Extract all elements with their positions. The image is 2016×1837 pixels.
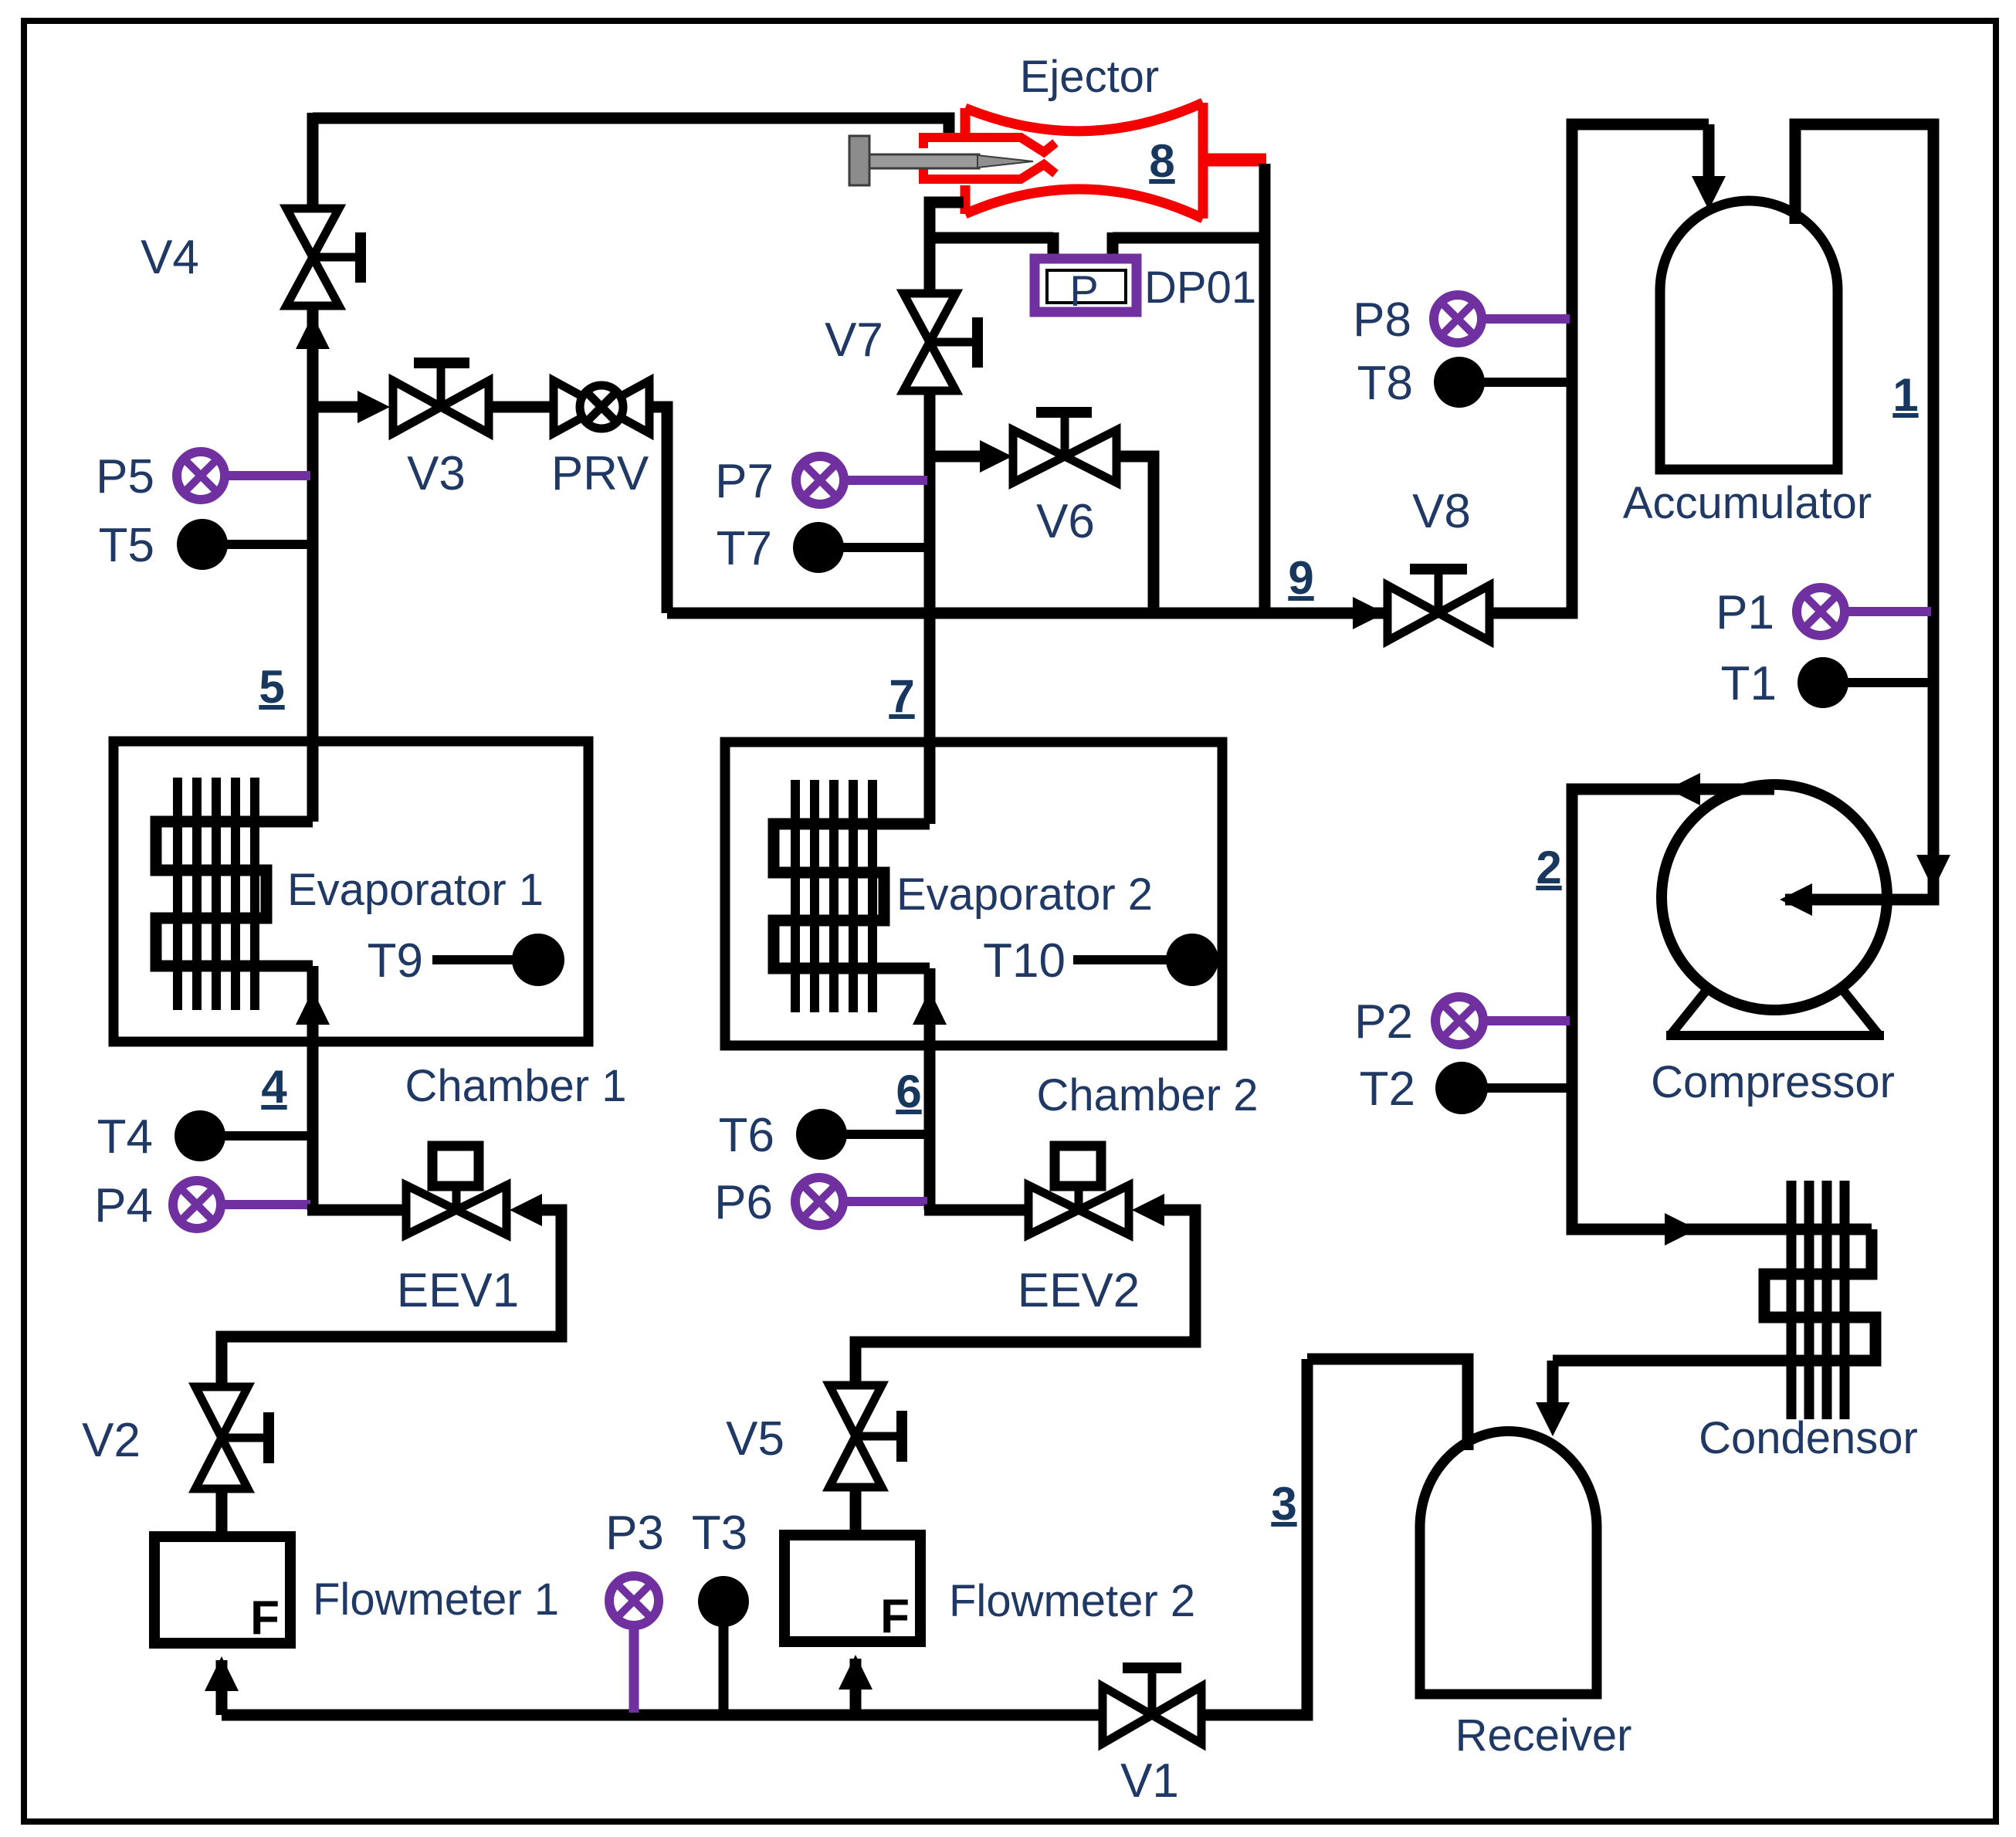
sensor T7: [793, 522, 927, 573]
sensor T1: [1797, 657, 1931, 708]
svg-text:T5: T5: [99, 519, 154, 572]
evaporator 2 coil fins: [795, 780, 872, 1012]
sensor P8: [1434, 295, 1570, 343]
svg-text:T9: T9: [368, 934, 423, 988]
wire: ejector suction duct from V7: [930, 202, 964, 292]
arrow into compressor centre: [1780, 883, 1812, 916]
arrow left on discharge: [1668, 773, 1700, 805]
evaporator 1 serpentine: [156, 822, 313, 966]
svg-text:T6: T6: [719, 1109, 774, 1162]
flowmeter 2 box: [784, 1535, 920, 1642]
svg-text:EEV1: EEV1: [397, 1264, 520, 1317]
ejector outlet stub (red): [1203, 154, 1266, 167]
arrow into V6: [980, 440, 1012, 473]
sensor T3: [698, 1576, 749, 1713]
arrow into condenser: [1665, 1213, 1697, 1246]
wire: DP01 right stub: [1107, 232, 1119, 260]
valve V1: [1103, 1668, 1201, 1744]
wire: line 6 from evaporator 2 down to EEV2 junction: [924, 968, 936, 1210]
svg-text:F: F: [250, 1591, 280, 1645]
svg-text:Ejector: Ejector: [1020, 52, 1160, 102]
wire: condenser to receiver with arrow: [1547, 1361, 1559, 1405]
valve V5: [829, 1385, 902, 1487]
valve V2: [195, 1387, 269, 1489]
arrow down into receiver: [1536, 1402, 1570, 1436]
valve V7: [903, 293, 978, 391]
flowmeter 1 box: [154, 1537, 290, 1643]
svg-text:T10: T10: [983, 934, 1066, 988]
svg-text:V8: V8: [1412, 485, 1471, 538]
wire: suction chamber bottom right segment: [1113, 232, 1265, 244]
svg-text:P: P: [1069, 266, 1098, 315]
wire: V3 to PRV: [489, 402, 554, 413]
wire: bottom return line: [222, 1710, 1103, 1721]
wire: V6 down to line 9: [1116, 456, 1154, 613]
svg-text:Evaporator 2: Evaporator 2: [896, 869, 1153, 920]
svg-text:Accumulator: Accumulator: [1623, 478, 1872, 528]
valve V6: [1013, 412, 1116, 483]
wire: V2 to flowmeter 1: [216, 1489, 228, 1537]
wire: line 9 from PRV drop to V8: [667, 608, 1387, 619]
wire: PRV down to line 9: [649, 407, 667, 613]
svg-text:P7: P7: [715, 455, 774, 508]
wire: junction 4 to EEV1: [307, 1205, 406, 1216]
arrow up into flowmeter 1: [205, 1656, 239, 1691]
sensor T5: [177, 519, 310, 570]
svg-text:3: 3: [1271, 1478, 1296, 1530]
arrow up into evaporator 2: [913, 990, 947, 1025]
arrow up into evaporator 1: [296, 990, 330, 1025]
valve PRV: [554, 381, 649, 433]
svg-text:V4: V4: [141, 231, 199, 284]
needle shaft (gray): [869, 154, 979, 168]
accumulator vessel: [1660, 201, 1838, 469]
wire: branch to V3: [313, 402, 365, 413]
svg-text:T8: T8: [1357, 357, 1413, 410]
svg-text:Flowmeter 2: Flowmeter 2: [949, 1576, 1195, 1626]
svg-text:7: 7: [889, 670, 914, 722]
wire: accumulator outlet to line 1: [1785, 124, 1933, 900]
evaporator 2 serpentine: [774, 824, 930, 968]
svg-text:P6: P6: [714, 1176, 773, 1229]
svg-text:Receiver: Receiver: [1455, 1710, 1632, 1761]
svg-text:Flowmeter 1: Flowmeter 1: [313, 1574, 559, 1625]
wire: DP01 left stub: [1048, 232, 1059, 260]
svg-text:T4: T4: [97, 1110, 153, 1164]
svg-text:P1: P1: [1716, 586, 1774, 639]
receiver vessel: [1420, 1431, 1597, 1694]
svg-text:Chamber 1: Chamber 1: [405, 1061, 627, 1111]
sensor P2: [1435, 997, 1570, 1045]
wire: line 5 vertical V4 up to top line: [307, 113, 319, 210]
needle handle (gray): [849, 136, 869, 185]
svg-text:T2: T2: [1360, 1063, 1415, 1116]
chamber 1 box: [114, 741, 588, 1042]
wire: EEV1 inlet from V2 riser: [222, 1210, 561, 1388]
svg-text:EEV2: EEV2: [1018, 1264, 1140, 1317]
wire: ejector outlet down to line 9: [1259, 164, 1271, 613]
svg-text:P4: P4: [94, 1179, 153, 1232]
svg-text:T3: T3: [692, 1507, 747, 1560]
svg-text:9: 9: [1288, 552, 1313, 604]
wire: line 5 from V4 down to evaporator 1 with junction: [307, 306, 319, 822]
wire: bottom line up into flowmeter 2: [850, 1659, 862, 1715]
sensor T10: [1073, 934, 1218, 986]
svg-text:4: 4: [261, 1061, 287, 1113]
sensor P6: [795, 1178, 927, 1225]
wire: branch to V6: [930, 451, 988, 463]
svg-text:V1: V1: [1120, 1754, 1179, 1808]
svg-text:Compressor: Compressor: [1651, 1057, 1895, 1107]
wire: compressor discharge to condenser: [1572, 789, 1872, 1229]
arrow into V8: [1353, 597, 1385, 629]
wire: EEV2 inlet from V5 riser: [856, 1210, 1195, 1387]
wire: suction chamber bottom left segment: [930, 232, 1053, 244]
condenser coil fins: [1791, 1181, 1845, 1419]
svg-text:1: 1: [1892, 369, 1918, 421]
sensor T9: [432, 934, 564, 986]
wire: junction 6 to EEV2: [924, 1205, 1028, 1216]
sensor T6: [796, 1109, 927, 1160]
sensor DP01 box: [1035, 259, 1137, 312]
svg-text:8: 8: [1149, 135, 1174, 187]
arrow into V3: [357, 391, 390, 423]
sensor P1: [1797, 588, 1931, 635]
compressor circle: [1662, 785, 1887, 1010]
svg-text:V2: V2: [82, 1414, 141, 1467]
chamber 2 box: [725, 742, 1222, 1046]
sensor P4: [173, 1181, 310, 1229]
wire: line 4 from evaporator 1 down to EEV1 junction: [307, 966, 319, 1210]
svg-text:F: F: [880, 1590, 910, 1643]
condenser serpentine: [1553, 1229, 1875, 1361]
svg-text:P3: P3: [605, 1507, 664, 1560]
arrow down into accumulator: [1692, 176, 1726, 210]
svg-text:P5: P5: [96, 450, 154, 503]
wire: bottom line up into flowmeter 1: [216, 1660, 228, 1715]
svg-text:P8: P8: [1353, 293, 1411, 347]
sensor T2: [1435, 1062, 1570, 1114]
svg-text:6: 6: [896, 1066, 921, 1117]
svg-text:V7: V7: [825, 314, 883, 367]
svg-text:P2: P2: [1354, 995, 1413, 1049]
valve V3: [393, 363, 489, 433]
svg-text:Evaporator 1: Evaporator 1: [287, 865, 544, 915]
arrow into EEV2: [1132, 1194, 1164, 1226]
sensor T4: [174, 1110, 310, 1161]
arrow up on line 5: [296, 315, 330, 349]
wire: top motive line from V4 to ejector nozzle: [313, 118, 949, 139]
wire: receiver outlet to line 3: [1307, 1359, 1468, 1450]
wire: V8 up to accumulator inlet: [1489, 124, 1709, 613]
compressor stand: [1666, 988, 1884, 1035]
svg-text:V5: V5: [726, 1412, 784, 1466]
svg-text:5: 5: [259, 661, 284, 713]
valve V4: [286, 208, 361, 306]
svg-text:Chamber 2: Chamber 2: [1037, 1070, 1259, 1120]
wire: V5 to flowmeter 2: [850, 1487, 862, 1535]
valve EEV2: [1028, 1146, 1129, 1235]
sensor P5: [177, 452, 310, 500]
svg-text:Condensor: Condensor: [1699, 1413, 1918, 1463]
evaporator 1 coil fins: [178, 778, 255, 1010]
needle tip: [978, 155, 1033, 168]
svg-text:2: 2: [1536, 842, 1561, 893]
wire: line 7 from V7 down to evaporator 2: [924, 391, 936, 824]
valve EEV1: [406, 1146, 507, 1235]
valve V8: [1387, 569, 1489, 641]
svg-text:DP01: DP01: [1144, 263, 1256, 313]
arrow into EEV1: [510, 1194, 542, 1226]
ejector nozzle (red): [923, 133, 1055, 184]
arrow down on compressor inlet: [1916, 855, 1950, 890]
svg-text:PRV: PRV: [551, 447, 649, 500]
svg-text:V3: V3: [407, 447, 466, 500]
sensor P7: [796, 456, 927, 504]
wire: V1 to line 3 riser: [1201, 1359, 1307, 1715]
svg-text:V6: V6: [1036, 495, 1095, 548]
sensor P3: [609, 1576, 659, 1713]
svg-text:T7: T7: [717, 522, 772, 575]
svg-text:T1: T1: [1721, 657, 1777, 710]
ejector body (red venturi): [965, 103, 1203, 219]
arrow up into flowmeter 2: [839, 1655, 872, 1690]
sensor T8: [1434, 357, 1570, 408]
